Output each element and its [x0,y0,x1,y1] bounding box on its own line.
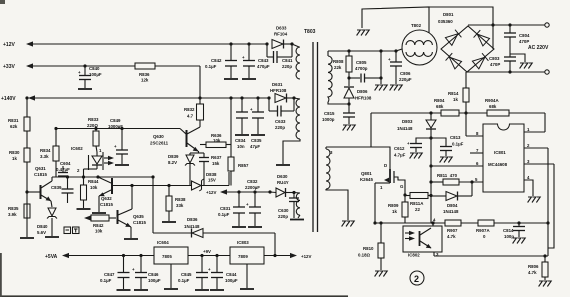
winding secondary C [290,193,304,220]
transformer T802 line filter [396,23,437,65]
svg-text:R831: R831 [8,118,19,123]
capacitor C806 [388,49,412,90]
svg-text:C612: C612 [394,146,405,151]
node +140V arrow [28,95,35,100]
svg-text:15V: 15V [208,178,216,183]
capacitor C814 [503,221,525,243]
capacitor C804 [504,23,530,57]
svg-text:2200µF: 2200µF [245,185,260,190]
svg-text:D840: D840 [37,224,48,229]
wire top loop right leg [429,7,493,49]
svg-text:5.6V: 5.6V [37,230,46,235]
svg-text:R832: R832 [184,107,195,112]
svg-text:1000µF: 1000µF [108,124,123,129]
svg-text:470µF: 470µF [257,64,270,69]
svg-text:MC44608: MC44608 [488,162,508,167]
svg-text:Q632: Q632 [101,196,112,201]
svg-text:R836: R836 [139,72,150,77]
svg-text:R904A: R904A [485,98,499,103]
svg-text:C841: C841 [282,58,293,63]
svg-text:+: + [242,55,245,60]
bridge rectifier D801 [438,12,494,72]
svg-text:+12V: +12V [206,190,216,195]
regulator IC604 7805 [154,240,188,289]
capacitor C805 [349,60,381,83]
resistor R831 [8,96,30,148]
svg-text:+12V: +12V [301,254,311,259]
optocoupler LED IC602 [71,146,114,177]
resistor R830 [9,148,30,237]
svg-text:RU4Y: RU4Y [277,180,289,185]
wire primary startup line y=113 [371,112,441,114]
capacitor C846 [132,254,161,290]
wire pin 8 [466,113,483,136]
capacitor C839 [51,175,74,203]
scan artifact: top-left corner speck [0,0,5,4]
svg-text:2: 2 [414,274,419,284]
svg-text:100µF: 100µF [89,72,102,77]
svg-text:C803: C803 [489,56,500,61]
capacitor C840 [78,64,102,89]
svg-text:+: + [208,267,211,272]
svg-text:+: + [407,141,410,146]
svg-text:15k: 15k [212,161,220,166]
svg-text:100p: 100p [504,234,514,239]
svg-text:D806: D806 [357,89,368,94]
svg-text:Q631: Q631 [35,166,46,171]
svg-text:4.7k: 4.7k [447,234,456,239]
svg-text:4700p: 4700p [355,66,368,71]
svg-text:3.3k: 3.3k [40,154,49,159]
svg-text:C843: C843 [258,58,269,63]
wire top loop [362,7,429,33]
svg-text:R907A: R907A [476,228,490,233]
resistor R907A [476,220,548,239]
svg-text:D836: D836 [187,217,198,222]
zener D840 [37,208,59,237]
svg-text:10n: 10n [237,144,245,149]
capacitor C604 [56,161,71,177]
svg-text:C831: C831 [220,206,231,211]
capacitor C832 [245,179,262,227]
diode D631 [267,82,295,103]
svg-text:470P: 470P [519,39,529,44]
svg-text:D838: D838 [206,172,217,177]
svg-text:C1815: C1815 [133,220,146,225]
svg-text:C604: C604 [60,161,71,166]
svg-text:R809: R809 [388,203,399,208]
ground tap at C803/C804 junction [510,54,532,69]
scan artifact: bottom edge smudge [0,295,348,297]
svg-text:C813: C813 [450,135,461,140]
scan artifact: left edge streak [0,253,2,297]
svg-text:C847: C847 [104,272,115,277]
svg-text:R804: R804 [434,98,445,103]
svg-text:+: + [78,70,81,75]
svg-text:47µF: 47µF [250,144,260,149]
svg-text:+5VA: +5VA [45,254,58,260]
svg-text:D630: D630 [277,174,288,179]
svg-text:+: + [114,144,117,149]
svg-text:R811 470: R811 470 [437,173,458,178]
svg-text:D801: D801 [443,12,454,17]
wire pin 7 stub [470,148,483,153]
svg-text:G: G [400,184,404,189]
wire AC upper line [468,23,549,27]
svg-text:2SC2611: 2SC2611 [150,141,169,146]
svg-text:+33V: +33V [3,64,15,70]
resistor R836 [135,63,202,100]
node +33V arrow [26,63,33,68]
resistor R835 [8,204,30,218]
svg-text:220p: 220p [282,64,292,69]
svg-text:100µF: 100µF [225,278,238,283]
winding primary aux D (Vcc) [328,51,349,104]
node +5VA arrow [62,253,69,258]
svg-text:R833: R833 [88,117,99,122]
capacitor C841 snubber loop [267,44,293,69]
capacitor C633 snubber loop [269,98,294,130]
svg-text:1N4148: 1N4148 [184,224,200,229]
transistor Q635 [118,184,147,239]
svg-text:+: + [132,267,135,272]
capacitor C630 snubber [278,193,299,220]
resistor R834 [40,127,59,177]
resistor R844 [77,175,100,209]
svg-text:C1815: C1815 [100,202,113,207]
capacitor C803 [489,56,516,74]
svg-text:+12V: +12V [3,42,15,48]
svg-text:C846: C846 [148,272,159,277]
svg-text:D633: D633 [276,26,287,31]
svg-text:10k: 10k [90,185,98,190]
winding secondary B (+140V) [276,98,300,165]
svg-text:R838: R838 [175,197,186,202]
capacitor C815 [322,104,355,131]
wire +140V rail [35,97,270,99]
resistor R838 [162,184,186,222]
diode D633 [265,26,293,49]
svg-text:035360: 035360 [438,19,453,24]
zener D838 [192,172,230,191]
wire drain drop [371,147,390,169]
svg-text:470P: 470P [490,62,500,67]
svg-text:C839: C839 [51,185,62,190]
svg-text:1k: 1k [12,156,17,161]
capacitor C842 [205,42,238,79]
capacitor C847 [100,254,131,290]
resistor R811A [405,193,431,213]
winding primary main E [326,147,354,227]
node +12V feed arrow [206,189,270,195]
svg-text:Q801: Q801 [361,171,372,176]
svg-text:Q630: Q630 [153,134,164,139]
svg-text:7805: 7805 [162,254,172,259]
capacitor C843 [242,42,270,79]
ground [20,237,34,239]
svg-text:0.47µF: 0.47µF [56,167,70,172]
diode D804 [429,182,472,214]
wire +12V rail [33,43,267,45]
wire collector bus y=177 [52,176,153,178]
svg-text:D803: D803 [402,119,413,124]
svg-text:D631: D631 [272,82,283,87]
svg-text:K2645: K2645 [360,177,373,182]
svg-text:3.9k: 3.9k [8,212,17,217]
capacitor C637 [199,153,222,186]
svg-text:10k: 10k [213,138,221,143]
svg-text:R808: R808 [333,59,344,64]
resistor R832 [184,98,204,127]
svg-text:0.1µF: 0.1µF [205,64,217,69]
resistor R814 [448,72,469,113]
svg-text:22: 22 [415,207,420,212]
svg-text:T802: T802 [411,23,422,28]
svg-text:IC604: IC604 [157,240,169,245]
winding secondary A (+12V) [292,44,300,79]
svg-text:R830: R830 [9,150,20,155]
svg-text:12k: 12k [141,78,149,83]
svg-text:C806: C806 [400,71,411,76]
wire pin 2 [524,143,548,256]
ground [357,30,370,36]
svg-text:C804: C804 [519,33,530,38]
svg-text:IC802: IC802 [408,253,420,258]
svg-text:R842: R842 [93,223,104,228]
IC U801 MC44608 body [483,124,524,192]
svg-text:D839: D839 [168,154,179,159]
svg-text:7809: 7809 [238,254,248,259]
resistor R810 [358,221,387,276]
svg-text:C805: C805 [356,60,367,65]
resistor R904A [485,98,545,132]
capacitor C849 [108,118,129,165]
resistor R636 [200,133,231,148]
resistor R907 [445,220,478,239]
svg-text:R857: R857 [238,163,249,168]
svg-text:0.1µF: 0.1µF [452,142,464,147]
svg-text:68k: 68k [489,104,497,109]
wire +5VA line [69,255,154,257]
svg-text:R834: R834 [40,148,51,153]
svg-text:D: D [384,163,387,168]
svg-text:HFR108: HFR108 [355,96,372,101]
svg-text:1N4148: 1N4148 [443,209,459,214]
wire pin 3 [524,159,554,248]
svg-text:R806: R806 [528,264,539,269]
switch symbol boxes (on/off) [64,227,79,234]
svg-text:R907: R907 [447,228,458,233]
wire primary B+ staircase to winding E [326,113,371,147]
svg-text:R814: R814 [448,91,459,96]
svg-text:220p: 220p [275,125,285,130]
capacitor C845 [178,254,209,290]
svg-text:+: + [250,107,253,112]
svg-text:T803: T803 [304,29,316,35]
svg-text:+: + [246,202,249,207]
resistor R833 [87,117,99,152]
svg-text:8.2V: 8.2V [168,160,177,165]
svg-text:IC801: IC801 [494,150,506,155]
transistor Q631 [25,166,52,207]
svg-text:10k: 10k [95,229,103,234]
svg-text:1000p: 1000p [322,117,335,122]
svg-text:+: + [388,57,391,62]
svg-text:RF104: RF104 [274,32,288,37]
svg-text:D804: D804 [447,203,458,208]
svg-text:+9V: +9V [203,249,211,254]
svg-text:0.1µF: 0.1µF [178,278,190,283]
diode D806 [344,87,372,106]
svg-text:+140V: +140V [1,96,16,102]
svg-text:IC803: IC803 [237,240,249,245]
resistor R811 [429,173,483,185]
svg-text:C845: C845 [181,272,192,277]
wire +9V link [188,249,230,256]
svg-text:220p: 220p [278,214,288,219]
svg-text:C849: C849 [110,118,121,123]
zener D839 [168,153,195,186]
svg-text:C842: C842 [211,58,222,63]
svg-text:1k: 1k [453,97,458,102]
wire aux drop + ground [375,49,388,90]
wire emitter sense line y=256 [434,221,550,257]
diode D803 [397,111,436,223]
transistor Q630 [150,127,200,153]
svg-text:R844: R844 [88,179,99,184]
wire AC lower line [467,70,549,74]
optocoupler IC802 [403,218,442,258]
diode D836 [153,217,275,256]
svg-text:R835: R835 [8,206,19,211]
capacitor C844 [208,254,238,290]
wire +33V rail [33,65,135,67]
svg-text:C633: C633 [275,119,286,124]
svg-text:C814: C814 [503,228,514,233]
wire base bus y=128.5 [56,128,180,130]
svg-text:IC602: IC602 [71,146,83,151]
svg-text:33k: 33k [176,203,184,208]
svg-text:AC 220V: AC 220V [528,45,549,51]
svg-text:R637: R637 [211,155,222,160]
svg-text:100µF: 100µF [148,278,161,283]
svg-text:220Ω: 220Ω [87,123,98,128]
wire pin 6 [429,161,483,168]
svg-text:4.7k: 4.7k [528,270,537,275]
capacitor C813 [431,135,464,163]
wire source/sense line y=223 [373,221,445,224]
svg-text:1N4148: 1N4148 [397,126,413,131]
regulator IC803 7809 [230,240,264,289]
capacitor C834 [235,96,249,149]
diode D630 [268,174,295,197]
page number symbol [410,271,424,285]
transformer T803 core [313,42,318,232]
capacitor C835 [250,96,265,149]
wire 7809 output to +12V [264,253,311,259]
svg-text:C832: C832 [247,179,258,184]
transistor Q632 [92,175,113,213]
svg-text:C835: C835 [251,138,262,143]
svg-text:0.1µF: 0.1µF [100,278,112,283]
svg-text:R810: R810 [363,246,374,251]
wire Q632 base line y=185.5 [113,185,191,187]
svg-text:62k: 62k [10,124,18,129]
resistor R806 [528,256,551,287]
wire emitter node [190,152,204,154]
wire bus drop to D836 return [151,175,154,233]
wire Vcc top rail [328,50,396,52]
svg-text:1k: 1k [392,209,397,214]
svg-text:C834: C834 [235,138,246,143]
MOSFET Q801 K2645 [360,163,405,223]
svg-text:220µF: 220µF [399,77,412,82]
svg-text:4.7: 4.7 [187,114,194,119]
svg-text:HFR108: HFR108 [270,88,287,93]
svg-text:C630: C630 [278,208,289,213]
svg-text:0.18Ω: 0.18Ω [358,253,371,258]
svg-text:68k: 68k [436,104,444,109]
svg-text:0.1µF: 0.1µF [218,212,230,217]
svg-text:22k: 22k [334,65,342,70]
resistor R857 [228,96,249,185]
svg-text:C844: C844 [226,272,237,277]
capacitor C831 [218,190,246,227]
svg-text:R811A: R811A [410,201,424,206]
resistor R809 [388,193,408,223]
resistor R804 [434,98,487,116]
node +12V arrow [26,41,33,46]
wire pin 1 [524,127,545,132]
svg-text:C815: C815 [324,111,335,116]
capacitor C612 [394,136,433,158]
svg-text:C1815: C1815 [34,172,47,177]
resistor R808 [333,49,352,86]
svg-text:Q635: Q635 [133,214,144,219]
svg-text:C840: C840 [89,66,100,71]
wire pin 4 to ground [524,175,540,203]
svg-text:4.7µF: 4.7µF [394,153,406,158]
resistor R842 [84,215,116,234]
